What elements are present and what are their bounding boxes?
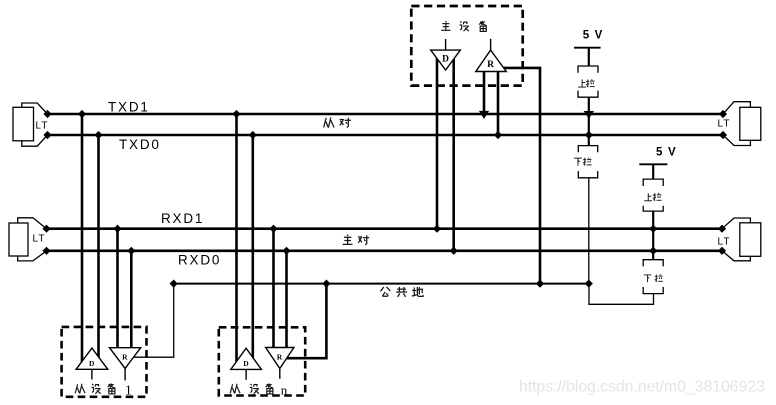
wire master receiver input A to TXD1	[483, 68, 486, 114]
svg-text:LT: LT	[33, 234, 46, 245]
svg-text:RXD1: RXD1	[161, 211, 204, 226]
resistor pull-up no.2 (上拉)	[643, 179, 663, 211]
power rail 5V no.1	[574, 29, 604, 66]
label 主设备 (master device)	[441, 21, 486, 31]
svg-text:TXD0: TXD0	[119, 137, 161, 152]
svg-text:1: 1	[125, 383, 132, 398]
svg-text:LT: LT	[718, 118, 731, 129]
label 公共地 (common ground)	[380, 287, 423, 297]
junction dots RXD1	[42, 225, 726, 233]
wire TXD0 to slave1 driver	[97, 135, 100, 363]
wire slave1 receiver output to ground bus	[130, 284, 174, 358]
wire pull-up no.1 to TXD1 and TXD0	[588, 97, 590, 135]
wire pull-down no.1 to ground bus	[588, 178, 590, 284]
slave device 1 dashed box	[62, 327, 147, 397]
wire common ground bus	[174, 283, 589, 285]
wire pull-up no.2 to RXD1 and RXD0	[652, 211, 654, 251]
wire RXD1 to slave1 receiver	[116, 229, 119, 352]
svg-text:R: R	[277, 352, 283, 361]
connector LT bottom-right	[722, 218, 761, 261]
svg-text:5 V: 5 V	[583, 29, 604, 41]
connector LT top-right	[723, 102, 761, 146]
op-amp master receiver R	[476, 39, 507, 72]
wire master receiver input B to TXD0	[497, 68, 500, 135]
op-amp slave-n receiver R	[266, 348, 294, 379]
op-amp slave1 driver D	[76, 348, 108, 379]
wire master receiver output to ground bus	[497, 68, 540, 284]
junction dots ground bus	[170, 280, 593, 288]
label 从对 (slave pair)	[324, 117, 351, 127]
connector LT bottom-left	[9, 218, 47, 261]
wire RXD1 bus	[47, 227, 723, 230]
svg-text:RXD0: RXD0	[178, 253, 221, 268]
svg-text:https://blog.csdn.net/m0_38106: https://blog.csdn.net/m0_38106923	[519, 379, 765, 396]
wire TXD1 bus	[48, 113, 724, 116]
svg-text:5 V: 5 V	[656, 146, 677, 158]
label 从设备 n (slave device n)	[230, 382, 288, 397]
resistor pull-down no.1 (下拉)	[578, 146, 597, 178]
svg-text:LT: LT	[718, 236, 731, 247]
op-amp master driver D	[431, 39, 461, 70]
junction dots RXD0	[42, 247, 726, 255]
wire RXD0 bus	[47, 250, 723, 253]
slave device n dashed box	[219, 327, 305, 395]
wire master driver output A to RXD1	[436, 52, 439, 229]
svg-text:R: R	[487, 60, 494, 70]
svg-text:D: D	[243, 359, 249, 368]
svg-text:TXD1: TXD1	[108, 100, 150, 115]
wire TXD0 to slave-n driver	[252, 135, 255, 363]
resistor pull-down no.2 (下拉)	[643, 260, 663, 294]
op-amp slave1 receiver R	[110, 348, 141, 381]
wire TXD1 to slave-n driver	[235, 114, 238, 364]
wire RXD0 to slave-n receiver	[285, 251, 288, 352]
wire RXD1 to slave-n receiver	[272, 229, 275, 352]
wire RXD0 to pull-down no.2	[652, 251, 654, 260]
power rail 5V no.2	[639, 146, 677, 179]
svg-text:D: D	[89, 359, 95, 368]
wire RXD0 to slave1 receiver	[130, 251, 133, 352]
label 主对 (master pair)	[343, 235, 370, 245]
op-amp slave-n driver D	[231, 348, 262, 380]
junction dots TXD0	[43, 131, 727, 139]
junction dots TXD1	[43, 110, 727, 119]
master device dashed box	[411, 6, 522, 86]
label 从设备 1 (slave device 1)	[75, 383, 132, 398]
wire pull-down no.2 to ground bus end	[589, 284, 654, 305]
resistor pull-up no.1 (上拉)	[578, 66, 598, 97]
wire TXD0 bus	[48, 134, 724, 137]
connector LT top-left	[13, 103, 48, 146]
wire TXD0 to pull-down no.1	[588, 135, 590, 146]
wire slave-n receiver output to ground bus	[287, 284, 326, 359]
svg-text:D: D	[442, 55, 449, 65]
svg-text:R: R	[122, 353, 128, 362]
wire TXD1 to slave1 driver	[81, 114, 84, 364]
wire master driver output B to RXD0	[452, 52, 455, 251]
svg-text:LT: LT	[36, 121, 49, 132]
svg-text:n: n	[281, 382, 288, 397]
